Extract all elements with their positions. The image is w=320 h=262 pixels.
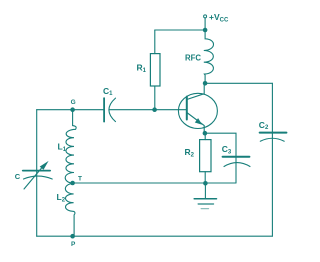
svg-text:L1: L1 — [58, 142, 67, 153]
label +Vcc — [209, 12, 229, 23]
inductor L2 — [65, 183, 75, 236]
resistor R1 — [150, 54, 160, 86]
wire bottom — [37, 235, 273, 237]
resistor R2 — [200, 140, 211, 172]
inductor RFC — [204, 30, 214, 83]
wire top — [155, 29, 205, 31]
wire C3 branch — [205, 133, 236, 183]
node P dot — [70, 234, 75, 239]
svg-text:R2: R2 — [185, 147, 195, 158]
wire left vertical branch — [36, 110, 38, 237]
label C1 — [103, 86, 113, 97]
label C2 — [259, 120, 269, 131]
node G dot — [70, 107, 75, 112]
node R2-ground junction — [203, 181, 208, 186]
node collector junction — [203, 81, 208, 86]
wire base line left segment — [37, 109, 104, 111]
svg-text:+VCC: +VCC — [209, 12, 229, 23]
ground — [194, 183, 216, 208]
svg-text:C: C — [15, 172, 21, 181]
svg-text:P: P — [71, 241, 76, 248]
node emitter junction — [203, 131, 208, 136]
svg-text:L2: L2 — [57, 192, 66, 203]
label RFC — [185, 53, 201, 62]
inductor L1 — [65, 110, 76, 184]
label R1 — [137, 63, 147, 74]
svg-text:C3: C3 — [222, 144, 232, 155]
transistor Q1 — [178, 83, 217, 133]
label C3 — [222, 144, 232, 155]
wire R2 leads — [204, 133, 206, 183]
variable capacitor C — [23, 161, 52, 189]
svg-text:G: G — [71, 99, 76, 106]
capacitor C3 — [223, 157, 250, 167]
label P — [71, 241, 76, 248]
svg-text:C2: C2 — [259, 120, 269, 131]
label R2 — [185, 147, 195, 158]
svg-text:T: T — [78, 176, 82, 183]
terminal +Vcc — [204, 15, 207, 30]
wire C2 branch vertical — [271, 83, 273, 236]
label L1 — [58, 142, 67, 153]
capacitor C2 — [260, 133, 287, 142]
svg-text:R1: R1 — [137, 63, 147, 74]
svg-text:C1: C1 — [103, 86, 113, 97]
label G — [71, 99, 76, 106]
node R1-base junction — [152, 107, 157, 112]
node T dot — [70, 181, 75, 186]
wire collector to C2 branch — [205, 82, 272, 84]
label C — [15, 172, 21, 181]
label L2 — [57, 192, 66, 203]
label T — [78, 176, 82, 183]
node Vcc junction — [203, 28, 208, 33]
capacitor C1 — [104, 98, 115, 122]
wire base line right segment — [109, 109, 187, 111]
wire R1 leads — [154, 30, 156, 110]
svg-text:RFC: RFC — [185, 53, 201, 62]
wire T line — [73, 182, 236, 184]
